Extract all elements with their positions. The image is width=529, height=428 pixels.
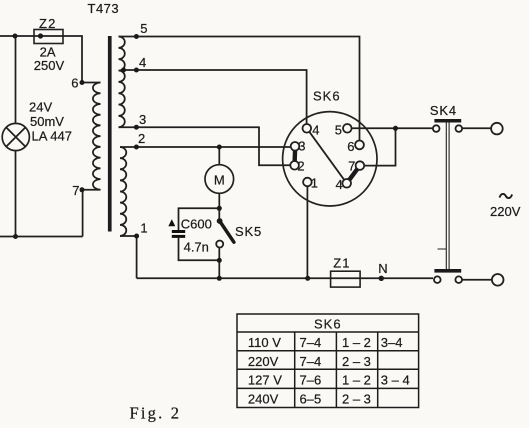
svg-text:7–6: 7–6 — [300, 373, 322, 388]
svg-text:7: 7 — [348, 159, 355, 174]
svg-text:SK5: SK5 — [235, 224, 262, 239]
svg-text:6–5: 6–5 — [300, 392, 322, 407]
svg-text:5: 5 — [140, 21, 147, 36]
svg-text:4: 4 — [139, 55, 146, 70]
svg-text:127 V: 127 V — [248, 373, 282, 388]
svg-text:2: 2 — [297, 159, 304, 174]
svg-text:3: 3 — [298, 139, 305, 154]
svg-text:Z2: Z2 — [39, 16, 57, 31]
svg-text:220V: 220V — [248, 354, 279, 369]
svg-text:1 – 2: 1 – 2 — [342, 335, 371, 350]
svg-text:1: 1 — [311, 176, 318, 191]
svg-text:24V: 24V — [29, 100, 52, 115]
svg-text:4: 4 — [312, 122, 319, 137]
svg-text:N: N — [378, 261, 387, 276]
svg-text:Z1: Z1 — [333, 255, 350, 270]
svg-text:220V: 220V — [490, 204, 521, 219]
svg-text:7–4: 7–4 — [300, 354, 322, 369]
svg-text:3 – 4: 3 – 4 — [381, 373, 410, 388]
svg-text:2 – 3: 2 – 3 — [342, 392, 371, 407]
svg-text:T473: T473 — [88, 1, 120, 16]
svg-text:50mV: 50mV — [30, 114, 64, 129]
svg-text:3: 3 — [139, 112, 146, 127]
svg-text:1 – 2: 1 – 2 — [342, 373, 371, 388]
svg-text:110 V: 110 V — [248, 335, 281, 350]
svg-text:240V: 240V — [248, 392, 279, 407]
svg-text:5: 5 — [335, 122, 342, 137]
svg-text:250V: 250V — [34, 58, 65, 73]
svg-text:6: 6 — [347, 139, 354, 154]
svg-text:4: 4 — [336, 177, 343, 192]
svg-text:M: M — [214, 172, 225, 187]
svg-text:6: 6 — [71, 75, 78, 90]
svg-text:4.7n: 4.7n — [184, 240, 209, 255]
svg-text:2 – 3: 2 – 3 — [342, 354, 371, 369]
svg-text:1: 1 — [140, 220, 147, 235]
svg-text:Fig. 2: Fig. 2 — [130, 403, 182, 422]
svg-text:C600: C600 — [181, 216, 212, 231]
svg-text:7–4: 7–4 — [300, 335, 322, 350]
svg-text:3–4: 3–4 — [381, 335, 403, 350]
svg-text:LA 447: LA 447 — [32, 129, 73, 144]
svg-text:SK6: SK6 — [314, 317, 342, 332]
svg-text:SK6: SK6 — [313, 89, 341, 104]
svg-text:2: 2 — [138, 131, 145, 146]
svg-text:7: 7 — [72, 183, 79, 198]
svg-text:SK4: SK4 — [430, 103, 457, 118]
